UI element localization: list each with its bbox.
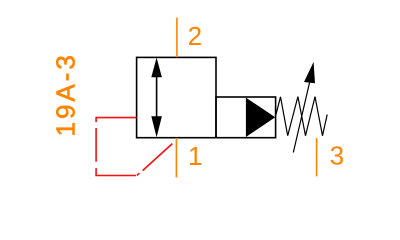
svg-text:3: 3 <box>330 141 344 171</box>
svg-text:19A-3: 19A-3 <box>51 52 81 136</box>
svg-text:1: 1 <box>188 141 202 171</box>
svg-text:2: 2 <box>188 21 202 51</box>
